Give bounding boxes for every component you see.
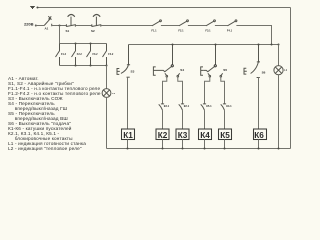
wire K3 to rail [182, 140, 184, 149]
node rail S6 [258, 44, 260, 46]
node 220V feed [35, 25, 37, 27]
wire lamp L1 to bottom rail [278, 75, 280, 149]
wire thermal block bottom rail [60, 65, 107, 67]
svg-text:К3: К3 [178, 131, 188, 140]
svg-text:F3.1: F3.1 [205, 29, 211, 33]
contact F1.1 [152, 20, 161, 26]
node [75, 65, 77, 67]
coil K4 [199, 129, 212, 140]
contact F2.2 [72, 44, 76, 66]
wire 220V feed [35, 25, 44, 27]
switch S3 [117, 45, 130, 78]
svg-text:S3: S3 [131, 69, 135, 73]
svg-text:S5: S5 [223, 68, 227, 72]
wire A1 to junction [52, 25, 67, 27]
wire S4 right output [178, 77, 183, 104]
svg-text:К3.1: К3.1 [164, 104, 170, 108]
svg-text:F4.1: F4.1 [227, 29, 233, 33]
wire S5 left output [205, 77, 210, 104]
node rail feed [271, 44, 273, 46]
svg-text:К2: К2 [158, 131, 168, 140]
button S1 [66, 15, 75, 27]
lamp L2 [102, 89, 111, 98]
svg-text:220В: 220В [24, 21, 34, 26]
wire down to thermal block [59, 26, 61, 44]
switch S6 [244, 45, 260, 78]
wire branch rail [129, 44, 279, 46]
contact K4.1 [221, 104, 226, 110]
breaker A1 [44, 16, 52, 26]
svg-text:A1: A1 [45, 27, 49, 31]
wire lamp L2 to bottom rail [106, 97, 108, 148]
wire thermal block top rail [60, 43, 107, 45]
svg-text:F1.1: F1.1 [151, 29, 157, 33]
coil K1 [122, 129, 135, 140]
wire block to lamp L2 [106, 66, 108, 89]
svg-text:S4: S4 [180, 68, 184, 72]
node [90, 65, 92, 67]
coil K5 [219, 129, 232, 140]
wire top neutral rail [37, 7, 291, 9]
selector S4 [153, 45, 179, 77]
node [204, 148, 206, 150]
wire S2 to F1.1 [101, 25, 152, 27]
wire [215, 25, 228, 27]
svg-text:К6: К6 [254, 131, 264, 140]
svg-text:F1.2: F1.2 [61, 53, 67, 56]
contact F2.1 [179, 20, 188, 26]
node [258, 148, 260, 150]
wire K2 to rail [162, 140, 164, 149]
svg-text:К4.1: К4.1 [226, 104, 232, 108]
node junction to thermal block [59, 25, 61, 27]
lamp L1 [274, 66, 283, 75]
node [162, 148, 164, 150]
wire to coil K3 [182, 110, 184, 129]
node rail lamp L1 [278, 44, 280, 46]
node [278, 148, 280, 150]
wire K1 to rail [127, 140, 129, 149]
wire K6 to rail [258, 140, 260, 149]
coil K6 [254, 129, 267, 140]
svg-text:К2.1: К2.1 [184, 104, 190, 108]
selector S5 [201, 45, 223, 77]
button S2 [92, 15, 101, 27]
wire K4 to rail [204, 140, 206, 149]
contact F4.2 [103, 44, 107, 66]
svg-text:К1: К1 [123, 131, 133, 140]
wire S6 to coil K6 [258, 77, 260, 129]
wire S5 right output [221, 77, 225, 104]
svg-text:S2: S2 [91, 29, 95, 33]
contact K5.1 [201, 104, 206, 110]
svg-text:К4: К4 [200, 131, 210, 140]
node rail S4 [172, 44, 174, 46]
node [224, 148, 226, 150]
contact K3.1 [159, 104, 164, 110]
wire bottom rail [107, 148, 291, 150]
node rail S5 [215, 44, 217, 46]
wire to coil K4 [204, 110, 206, 129]
wire S4 left output [163, 77, 167, 104]
node [90, 43, 92, 45]
ground [30, 7, 35, 9]
svg-text:F4.2: F4.2 [108, 53, 114, 56]
svg-text:L2 - индикация "тепловое реле": L2 - индикация "тепловое реле" [8, 146, 82, 151]
contact K2.1 [179, 104, 184, 110]
node [182, 148, 184, 150]
node [127, 148, 129, 150]
contact F3.1 [206, 20, 215, 26]
wire to coil K5 [224, 110, 226, 129]
svg-text:F3.2: F3.2 [93, 53, 99, 56]
wire [161, 25, 179, 27]
svg-text:F2.1: F2.1 [178, 29, 184, 33]
wire [188, 25, 206, 27]
contact F3.2 [87, 44, 91, 66]
coil K2 [156, 129, 169, 140]
svg-text:К5: К5 [220, 131, 230, 140]
node [75, 43, 77, 45]
svg-text:S1: S1 [66, 29, 70, 33]
wire right rail [290, 8, 292, 149]
node block corner [106, 65, 108, 67]
coil K3 [176, 129, 189, 140]
contact F1.2 [56, 44, 60, 66]
svg-text:S6: S6 [262, 70, 266, 74]
wire to coil K2 [162, 110, 164, 129]
node top-left [37, 7, 39, 9]
wire S3 to coil K1 [127, 77, 129, 129]
svg-text:F2.2: F2.2 [77, 53, 83, 56]
contact F4.1 [228, 20, 237, 26]
svg-text:К5.1: К5.1 [206, 104, 212, 108]
legend text [8, 76, 101, 151]
wire rail to lamp L1 [278, 45, 280, 66]
wire F4.1 to corner down [236, 26, 271, 45]
wire K5 to rail [224, 140, 226, 149]
wire S1-S2 [75, 25, 91, 27]
